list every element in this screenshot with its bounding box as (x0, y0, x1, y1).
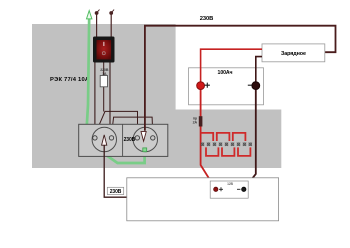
inverter plus terminal (214, 187, 218, 191)
wire N terminal to switch (110, 14, 112, 37)
mounting panel (gray, L-shaped) (32, 24, 281, 168)
lamp cord from socket 1 (104, 145, 127, 197)
svg-text:2А: 2А (193, 121, 198, 125)
garland lamps (201, 143, 252, 146)
wire L terminal to switch (96, 14, 98, 37)
PE arrow head (87, 11, 92, 19)
rocker I mark (103, 42, 104, 46)
battery minus terminal (252, 82, 260, 90)
fuse on plus wire (199, 116, 203, 126)
switch feed wire left (94, 62, 96, 136)
charger box (262, 44, 325, 62)
fuse F1 (100, 76, 107, 87)
socket 2 round (133, 127, 157, 151)
socket 2 pin holes (135, 136, 139, 140)
inverter terminal box (210, 181, 248, 198)
battery plus terminal (197, 82, 205, 90)
svg-text:РЭК 77/4 10А: РЭК 77/4 10А (50, 77, 90, 83)
rail 2 (pin2 to right socket pin2) (112, 117, 153, 135)
inverter minus sign (237, 188, 240, 190)
svg-text:12В: 12В (227, 182, 233, 186)
svg-text:230В: 230В (110, 189, 122, 195)
plug arrow out of socket 1 (102, 135, 107, 145)
PE green wire (86, 16, 145, 163)
battery plus sign (205, 83, 210, 88)
fuse stub wire (103, 62, 105, 112)
socket 1 round (92, 127, 116, 151)
garland wire loops (201, 133, 251, 156)
svg-text:230В: 230В (200, 16, 213, 22)
label 230V bottom left (107, 187, 123, 194)
svg-text:230В: 230В (124, 137, 136, 143)
terminal lug L (95, 11, 99, 15)
socket plate (79, 124, 168, 156)
wire battery minus down to inverter (244, 86, 255, 189)
svg-text:100Ач: 100Ач (218, 70, 233, 76)
rocker O mark (102, 52, 105, 55)
wire battery minus to charger (256, 57, 262, 86)
wire battery plus to charger (201, 49, 262, 85)
terminal lug N (109, 11, 113, 15)
inverter outer box (127, 178, 279, 221)
battery minus sign (248, 84, 252, 86)
inverter plus sign (219, 187, 223, 191)
inverter minus terminal (242, 187, 246, 191)
socket 1 pin holes (93, 136, 97, 140)
230V mains line (switch to charger) (145, 26, 336, 131)
socket plate divider (122, 124, 124, 156)
plug arrow into socket 2 (141, 132, 146, 142)
socket 2 earth contact (143, 148, 147, 152)
wire battery plus down to inverter (201, 86, 216, 189)
rocker switch body (93, 37, 115, 63)
svg-text:Зарядное: Зарядное (281, 51, 306, 57)
rocker switch red key (97, 40, 112, 59)
battery box (189, 68, 264, 105)
rail 1 (pin1 to right socket pin1) (95, 111, 138, 135)
switch feed wire right (110, 62, 112, 136)
